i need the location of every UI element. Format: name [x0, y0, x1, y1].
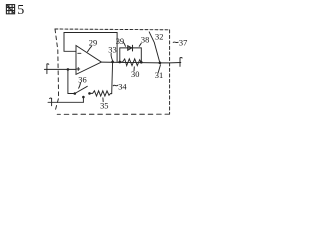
leader 30 — [133, 67, 135, 71]
node diode branch right — [140, 61, 143, 64]
leader 34 — [113, 84, 118, 87]
wire op-amp output — [101, 61, 180, 64]
leader 31 — [158, 65, 160, 73]
input terminal — [47, 64, 49, 74]
leader 37 — [173, 41, 178, 44]
svg-text:30: 30 — [131, 70, 139, 79]
output terminal — [180, 58, 182, 67]
wire pole to terminal — [48, 101, 83, 103]
svg-text:32: 32 — [155, 33, 163, 42]
node diode branch left — [118, 61, 121, 64]
svg-text:38: 38 — [141, 35, 149, 44]
svg-text:34: 34 — [118, 82, 127, 91]
leader 29 — [88, 46, 92, 52]
svg-text:36: 36 — [78, 76, 86, 85]
wire inverting input drop — [67, 69, 69, 93]
dashed box 37 (chopper circuit boundary) — [55, 29, 170, 114]
leader 39 — [123, 42, 126, 46]
svg-text:35: 35 — [100, 102, 108, 111]
svg-text:29: 29 — [89, 38, 97, 47]
leader 35 — [102, 98, 104, 102]
switch 36 pole node — [82, 96, 85, 99]
diode 38 — [128, 45, 133, 51]
leader 36 — [79, 83, 81, 88]
svg-text:37: 37 — [179, 38, 187, 47]
node input junction — [67, 68, 70, 71]
wire to switch 36 — [68, 93, 75, 95]
leader 38 — [139, 43, 141, 46]
node 33 — [111, 61, 114, 64]
svg-text:31: 31 — [155, 71, 163, 80]
svg-text:39: 39 — [116, 37, 124, 46]
switch 36 contact right — [88, 92, 91, 95]
chopper drive terminal — [50, 98, 52, 106]
wire input — [44, 68, 76, 70]
switch 36 contact left — [74, 92, 77, 95]
svg-text:5: 5 — [17, 3, 24, 18]
wire diode branch — [120, 48, 142, 62]
resistor 35 — [90, 91, 112, 96]
wire divider vertical 34 — [111, 62, 114, 94]
leader 33 — [111, 53, 112, 60]
node 31 — [159, 62, 162, 65]
switch 36 blade — [75, 86, 87, 93]
op-amp 29 — [76, 46, 101, 75]
resistor 30 — [120, 59, 141, 66]
wire pole drop — [82, 97, 84, 102]
wire feedback loop — [64, 33, 117, 62]
svg-text:33: 33 — [108, 46, 116, 55]
switch 32 blade — [149, 32, 160, 63]
figure label 図5 — [6, 5, 14, 14]
